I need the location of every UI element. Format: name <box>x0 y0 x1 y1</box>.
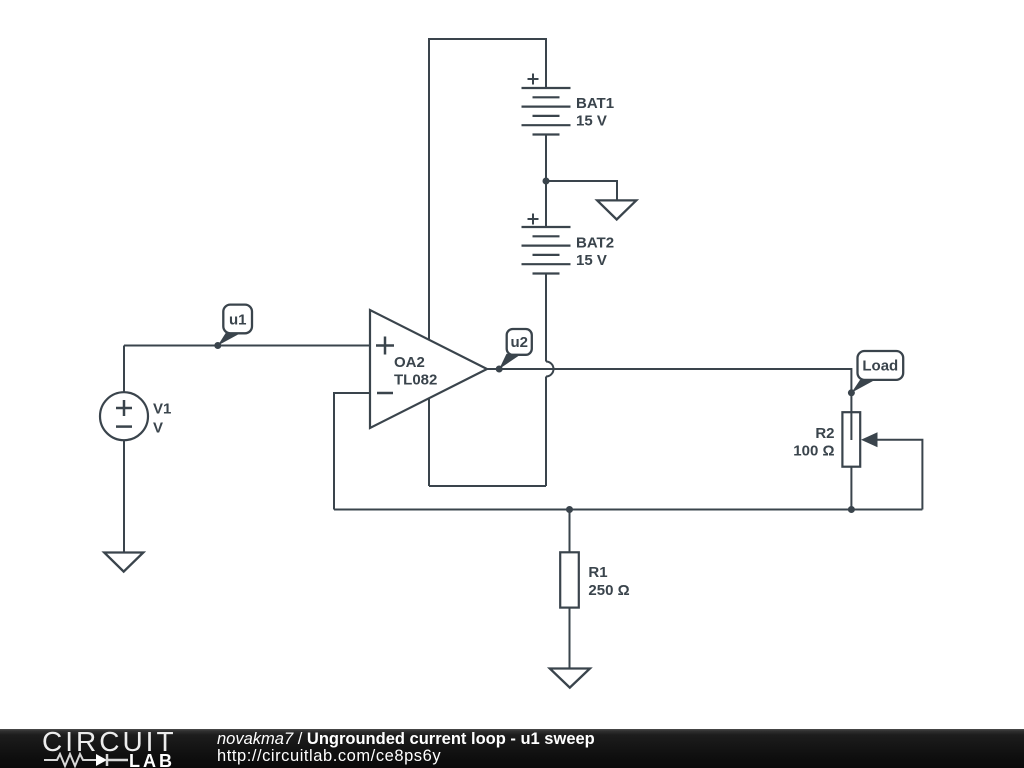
CircuitLab logo word CIRCUIT <box>42 726 177 758</box>
svg-text:15 V: 15 V <box>576 252 607 269</box>
svg-text:V: V <box>153 420 163 437</box>
wire top loop from BAT1+ around to loop bottom <box>429 39 546 486</box>
svg-text:u2: u2 <box>510 334 528 351</box>
svg-text:u1: u1 <box>229 312 247 329</box>
wire loop bottom <box>429 485 546 487</box>
voltage source V1 plus sign <box>116 400 132 416</box>
svg-text:OA2: OA2 <box>394 354 425 371</box>
resistor R1 <box>560 552 579 607</box>
node u2 dot (op-amp output) <box>496 366 503 373</box>
node Load dot <box>848 389 855 396</box>
svg-text:250 Ω: 250 Ω <box>588 582 629 599</box>
wire R1 top lead <box>569 510 571 553</box>
node Load pointer wedge <box>851 380 875 393</box>
footer title text <box>217 730 595 749</box>
voltage source V1 <box>100 392 148 440</box>
battery BAT2 plus sign <box>528 214 539 225</box>
op-amp OA2 <box>370 310 487 428</box>
wire between batteries to ground <box>546 181 617 200</box>
svg-text:Load: Load <box>862 358 898 375</box>
ground under R1 <box>550 669 590 688</box>
wire V1 bottom to ground <box>123 440 125 552</box>
ground under V1 <box>104 553 143 572</box>
battery BAT1 <box>522 88 571 135</box>
node u1 label box <box>223 305 252 334</box>
wire R1 bottom lead <box>569 608 571 669</box>
svg-text:15 V: 15 V <box>576 113 607 130</box>
svg-text:BAT1: BAT1 <box>576 95 614 112</box>
ground mid right <box>597 200 636 219</box>
svg-text:R2: R2 <box>815 425 834 442</box>
node u2 pointer wedge <box>499 354 519 369</box>
wire V1 top to op-amp plus input <box>124 346 370 393</box>
svg-text:100 Ω: 100 Ω <box>793 443 834 460</box>
wire BAT2 top lead <box>545 181 547 227</box>
wire BAT2 bottom to hop <box>545 274 547 362</box>
CircuitLab logo word LAB <box>129 751 175 768</box>
node u2 label box <box>507 329 532 355</box>
junction dot R2 bottom <box>848 506 855 513</box>
wire R2 wiper to bottom rail <box>876 440 922 510</box>
node u1 pointer wedge <box>218 333 239 346</box>
voltage source V1 minus sign <box>116 425 132 428</box>
junction dot R1 top <box>566 506 573 513</box>
potentiometer R2 wiper arrow <box>861 432 878 447</box>
wire bottom rail <box>334 509 922 511</box>
wire op-amp output to load <box>487 369 851 440</box>
wire op-amp minus input feedback <box>334 393 370 510</box>
svg-text:TL082: TL082 <box>394 372 437 389</box>
op-amp minus input symbol <box>377 392 393 395</box>
wire BAT1 bottom lead <box>545 135 547 182</box>
svg-text:V1: V1 <box>153 401 171 418</box>
node u1 dot <box>214 342 221 349</box>
potentiometer R2 body <box>842 412 860 467</box>
node Load label box <box>858 351 904 380</box>
footer bar <box>0 729 1024 768</box>
battery BAT2 <box>522 227 571 274</box>
svg-text:BAT2: BAT2 <box>576 235 614 252</box>
op-amp plus input symbol <box>376 337 394 355</box>
node junction between batteries <box>543 178 550 185</box>
CircuitLab logo resistor-diode squiggle <box>44 752 134 768</box>
svg-text:R1: R1 <box>588 564 607 581</box>
footer url text <box>217 747 441 766</box>
wire R2 bottom lead <box>850 467 852 510</box>
wire hop to loop bottom <box>545 377 547 487</box>
wire hop over output wire <box>546 362 554 377</box>
battery BAT1 plus sign <box>528 74 539 85</box>
